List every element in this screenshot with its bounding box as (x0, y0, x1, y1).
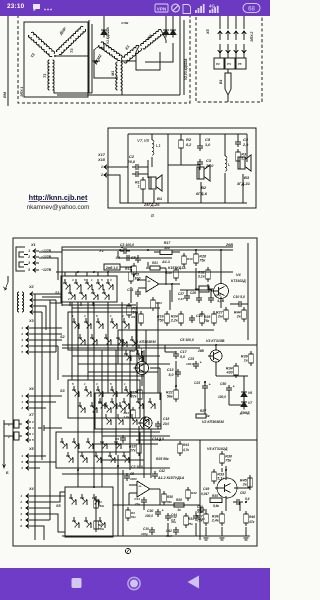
svg-text:3: 3 (84, 314, 86, 318)
svg-text:В3: В3 (244, 175, 250, 180)
svg-text:С32: С32 (171, 515, 177, 519)
svg-text:3: 3 (21, 394, 23, 398)
wires output stage (225, 466, 227, 480)
capacitor C17 5,0 (175, 351, 177, 354)
svg-text:Х3: Х3 (28, 319, 35, 323)
svg-text:2: 2 (20, 332, 23, 336)
svg-text:nkamnev@yahoo.com: nkamnev@yahoo.com (27, 204, 90, 211)
svg-text:26В: 26В (197, 349, 205, 353)
wire top rail 26V (62, 249, 233, 251)
svg-text:+: + (209, 383, 211, 387)
svg-text:75к: 75к (199, 259, 206, 263)
svg-text:100,0: 100,0 (145, 514, 153, 518)
switch unit frame У1 (62, 247, 233, 306)
svg-text:5,0: 5,0 (180, 355, 185, 359)
resistor R21 feedback (150, 266, 160, 270)
svg-text:Д9МД: Д9МД (239, 411, 250, 415)
svg-text:5: 5 (32, 438, 34, 442)
svg-text:ВМ: ВМ (3, 91, 7, 98)
svg-text:Х5: Х5 (28, 447, 35, 451)
wires motor2 (121, 60, 123, 62)
back triangle button (188, 576, 200, 589)
svg-text:С42: С42 (159, 469, 165, 473)
recents square button (72, 578, 82, 588)
home circle button (128, 577, 140, 589)
svg-text:2: 2 (20, 406, 23, 410)
svg-text:С5: С5 (205, 137, 211, 142)
mains plug contacts (16, 247, 25, 271)
arrow Б lead (3, 444, 5, 468)
svg-text:С27: С27 (178, 292, 184, 296)
svg-text:75к: 75к (204, 319, 210, 323)
motor unit M box (24, 22, 88, 97)
loudspeaker B3 3ГД-31 (238, 157, 245, 169)
resistor R9 56к (128, 303, 130, 306)
svg-text:0,1: 0,1 (115, 442, 120, 446)
svg-text:Т2: Т2 (30, 52, 36, 59)
svg-text:С7: С7 (131, 256, 135, 260)
resistor R18 27к (138, 441, 140, 444)
svg-text:КТ3102Д: КТ3102Д (231, 279, 246, 283)
crossover network box (108, 128, 256, 208)
svg-text:R27: R27 (200, 409, 207, 413)
svg-text:1: 1 (21, 400, 23, 404)
capacitor C9 0,1 (122, 435, 124, 438)
svg-text:V1 КП303ЕМ: V1 КП303ЕМ (134, 340, 157, 344)
resistor R10 (183, 253, 185, 256)
svg-text:В2: В2 (201, 185, 207, 190)
svg-text:750к: 750к (98, 504, 105, 508)
svg-text:3: 3 (21, 338, 23, 342)
svg-text:+: + (200, 361, 202, 365)
svg-text:R17: R17 (164, 241, 172, 245)
svg-text:R25 56к: R25 56к (156, 457, 169, 461)
svg-text:5,0: 5,0 (169, 373, 174, 377)
2мВ measurement tag (104, 264, 120, 270)
overflow dots icon (44, 9, 52, 11)
svg-text:5: 5 (84, 278, 86, 282)
svg-text:М2: М2 (96, 53, 103, 60)
svg-text:~127В: ~127В (41, 249, 52, 253)
diode V7 (243, 399, 245, 402)
wire top rail (128, 133, 247, 135)
resistor R46 47к (245, 511, 247, 514)
svg-text:1: 1 (21, 326, 23, 330)
resistor R37 75к (205, 511, 207, 514)
svg-text:750: 750 (158, 319, 165, 323)
resistor R13 (133, 263, 135, 266)
signal bars 1 (195, 4, 205, 13)
svg-text:2: 2 (31, 420, 34, 424)
winding T1 (vertical) (48, 60, 54, 90)
svg-text:С2 10,0: С2 10,0 (131, 465, 143, 469)
svg-text:56к: 56к (167, 395, 174, 399)
wire from diode V3 (145, 50, 173, 62)
svg-text:Х2: Х2 (28, 285, 35, 289)
svg-text:3: 3 (96, 382, 98, 386)
svg-text:47н: 47н (170, 520, 176, 524)
svg-text:Р5: Р5 (238, 62, 242, 66)
resistor R1 750к in S5 (95, 497, 97, 500)
svg-text:1к: 1к (244, 359, 249, 363)
svg-text:С50: С50 (220, 382, 226, 386)
svg-text:1: 1 (64, 278, 66, 282)
wire stubs S1 to rail (64, 272, 66, 276)
svg-text:2к: 2к (242, 483, 248, 487)
svg-text:РЗ: РЗ (216, 62, 220, 66)
svg-text:R42: R42 (191, 491, 197, 495)
svg-text:3: 3 (20, 506, 22, 510)
resistor R41 4,7к (179, 441, 181, 444)
sim card icon (183, 5, 191, 14)
resistor R12 1к (138, 345, 140, 348)
svg-text:51к: 51к (131, 515, 136, 519)
wire loop motor2 left (94, 46, 118, 78)
svg-text:6: 6 (20, 524, 22, 528)
svg-text:С18: С18 (163, 417, 169, 421)
divider wire and labels (62, 344, 257, 346)
svg-text:Х5: Х5 (206, 28, 210, 35)
svg-text:∞: ∞ (148, 279, 151, 284)
horizontal links in switch matrix (62, 304, 136, 306)
svg-text:+: + (121, 246, 123, 250)
svg-text:В: В (151, 213, 154, 218)
svg-text:http://knn.cjb.net: http://knn.cjb.net (29, 193, 88, 202)
resistor R11 1,2к (132, 407, 134, 410)
resistor R3 5,1 (237, 149, 239, 152)
junction dots opamp (137, 279, 139, 281)
main amplifier board border (13, 238, 257, 546)
svg-text:1: 1 (110, 314, 112, 318)
svg-text:С52: С52 (240, 491, 246, 495)
svg-text:2,4к: 2,4к (211, 519, 220, 523)
wires mid section (141, 375, 143, 386)
arrow into motor unit (94, 60, 97, 64)
svg-text:R26: R26 (176, 498, 182, 502)
wire star junctions (54, 55, 56, 57)
capacitor C1 20,0 (132, 173, 136, 175)
capacitor C26 1000 (126, 473, 128, 476)
svg-text:Х7: Х7 (28, 413, 35, 417)
svg-text:2: 2 (19, 500, 22, 504)
resistor R19 (140, 311, 142, 314)
svg-text:4=5В: 4=5В (120, 21, 129, 25)
wire rail y272 (56, 271, 233, 273)
capacitor C13 5,0 (177, 369, 179, 372)
svg-text:V1 КД522А: V1 КД522А (106, 27, 110, 44)
svg-text:5,6: 5,6 (245, 497, 250, 501)
sheet letter Ø below board (125, 548, 130, 553)
winding M1 (vertical) (116, 62, 123, 90)
wire column x168 (167, 134, 169, 203)
svg-text:2: 2 (100, 173, 103, 177)
svg-text:2мВ 1,0: 2мВ 1,0 (105, 266, 118, 270)
svg-text:2: 2 (67, 297, 70, 301)
connector X5 pin arrows (two rows of four) (219, 16, 221, 29)
svg-text:1: 1 (124, 382, 126, 386)
svg-text:2: 2 (20, 344, 23, 348)
resistor R18 (175, 267, 177, 270)
svg-text:R18: R18 (166, 271, 172, 275)
svg-text:А1.2 К157УД1А: А1.2 К157УД1А (157, 476, 185, 480)
svg-text:3: 3 (21, 454, 23, 458)
switch S4 box (95, 393, 161, 429)
auxiliary switch box (118, 330, 146, 364)
resistor R32 3,1к (207, 267, 209, 270)
svg-text:ЭПУ.2: ЭПУ.2 (250, 32, 254, 42)
long vertical wire bus left (34, 294, 36, 540)
switch S5 box (65, 487, 113, 537)
diode V6 (243, 389, 245, 392)
svg-text:750к: 750к (98, 527, 105, 531)
svg-text:1: 1 (101, 165, 103, 169)
svg-text:VPN: VPN (157, 6, 167, 11)
svg-text:L: L (228, 162, 231, 167)
wire divider second line (62, 347, 200, 349)
wire bottom rail (120, 202, 247, 204)
capacitor C32 47н (167, 513, 169, 516)
svg-text:Х1: Х1 (30, 243, 36, 247)
svg-text:S3: S3 (60, 389, 66, 393)
resistor R5 300 (130, 269, 132, 272)
output stage frame (200, 439, 257, 441)
svg-text:R38: R38 (167, 495, 173, 499)
svg-text:С10 5,0: С10 5,0 (233, 295, 245, 299)
ground symbols output stage (204, 537, 209, 539)
svg-text:R35: R35 (212, 494, 218, 498)
svg-text:R14: R14 (156, 301, 162, 305)
capacitor C11 (137, 289, 139, 292)
svg-text:С10: С10 (143, 527, 149, 531)
battery pill 68 (243, 3, 260, 12)
diode V3 КД522А (172, 27, 174, 30)
wire input (112, 166, 128, 168)
resistor R33 5,1к (213, 469, 215, 472)
svg-text:С28: С28 (197, 505, 203, 509)
svg-text:R19: R19 (131, 315, 137, 319)
svg-text:S5: S5 (56, 504, 62, 508)
status bar (0, 0, 270, 16)
VPN badge (155, 4, 168, 12)
loudspeaker B2 6ГД-6 (197, 167, 204, 179)
svg-text:5: 5 (21, 350, 23, 354)
svg-text:1: 1 (84, 382, 86, 386)
svg-text:5: 5 (21, 460, 23, 464)
svg-text:С42: С42 (166, 529, 172, 533)
diode V1 КД522А (103, 27, 105, 30)
svg-text:М1: М1 (111, 71, 115, 76)
chat bubble icon (33, 4, 40, 11)
svg-text:2м: 2м (217, 315, 223, 319)
svg-text:20,0: 20,0 (127, 160, 136, 164)
svg-text:4: 4 (19, 512, 22, 516)
svg-text:100р: 100р (141, 532, 148, 536)
capacitor C43 (195, 513, 197, 516)
svg-text:68: 68 (248, 7, 255, 13)
resistor R27 2м (225, 307, 227, 310)
resistor R38 56к (163, 491, 165, 494)
svg-text:С4: С4 (243, 137, 249, 142)
svg-text:В1: В1 (157, 196, 163, 201)
switch S1 box (61, 276, 117, 302)
wire cluster links (186, 290, 188, 293)
switch S6 box (56, 432, 140, 468)
svg-text:3,1к: 3,1к (198, 275, 206, 279)
resistor R26 1к (174, 503, 184, 507)
wire loop motor2 right (136, 46, 160, 70)
wires analog top (147, 262, 149, 267)
svg-text:РЧ: РЧ (227, 62, 232, 66)
svg-text:+: + (162, 509, 164, 513)
dashed enclosure ЭПУ-1 (tape drive unit, left) (18, 8, 190, 103)
svg-text:6ГД-6: 6ГД-6 (196, 191, 208, 196)
svg-text:Т1: Т1 (43, 74, 47, 78)
svg-text:1,2к: 1,2к (123, 415, 129, 419)
svg-text:4,4В: 4,4В (216, 299, 224, 303)
svg-text:С25: С25 (188, 357, 194, 361)
svg-text:V4: V4 (236, 273, 242, 277)
svg-text:С2: С2 (129, 154, 135, 159)
svg-text:25ГД-26: 25ГД-26 (143, 202, 160, 207)
svg-text:8,2: 8,2 (186, 143, 192, 147)
dashed enclosure ЭПУ-2 (right) (196, 8, 262, 102)
svg-text:R21: R21 (152, 261, 158, 265)
svg-text:22н: 22н (134, 502, 140, 506)
svg-text:S1: S1 (55, 291, 60, 295)
svg-text:1: 1 (32, 432, 34, 436)
svg-text:С49: С49 (203, 487, 209, 491)
wire second rail (120, 257, 150, 259)
svg-text:L1: L1 (156, 143, 161, 148)
svg-text:С31: С31 (134, 497, 140, 501)
svg-text:10,0: 10,0 (215, 293, 221, 297)
svg-text:75к: 75к (188, 522, 193, 526)
svg-text:100,0: 100,0 (186, 362, 194, 366)
resistor R35 5,6к (210, 498, 222, 503)
svg-text:0,47: 0,47 (178, 297, 184, 301)
svg-text:20,0: 20,0 (162, 422, 169, 426)
svg-text:К157УД1А: К157УД1А (168, 266, 186, 270)
lower passive row (R16 R24 C20 R29 R41) (166, 311, 168, 314)
svg-text:V3 КТ315В: V3 КТ315В (206, 339, 225, 343)
svg-text:27к: 27к (130, 395, 138, 399)
svg-text:2: 2 (7, 435, 10, 439)
svg-text:1к: 1к (206, 414, 210, 418)
svg-text:С3: С3 (206, 158, 212, 163)
svg-text:С20: С20 (196, 314, 203, 318)
resistor R14 (152, 297, 154, 300)
svg-text:V6: V6 (248, 391, 252, 395)
do-not-disturb icon (172, 4, 180, 12)
android navigation bar (0, 568, 270, 600)
transistor V5 КТ3102Д circle (217, 478, 237, 498)
svg-text:R2: R2 (186, 137, 192, 142)
svg-text:V2,V3 КД522А: V2,V3 КД522А (184, 58, 188, 80)
winding T3 / ДОР (diagonal) (56, 26, 86, 56)
loudspeaker B1 25ГД-26 (149, 177, 156, 189)
svg-text:Х18: Х18 (97, 157, 106, 162)
svg-text:1,0: 1,0 (205, 143, 211, 147)
svg-text:R12: R12 (129, 349, 135, 353)
svg-text:300: 300 (164, 246, 170, 250)
svg-text:5,6к: 5,6к (213, 504, 219, 508)
switch S2 box (68, 312, 136, 350)
wire column mid (180, 151, 182, 165)
inductor L (225, 156, 227, 171)
svg-text:Б: Б (6, 471, 9, 475)
resistor R36 2,4к (221, 511, 223, 514)
wire to right section (92, 60, 100, 62)
svg-text:С23: С23 (194, 381, 200, 385)
svg-text:1: 1 (8, 423, 10, 427)
svg-text:С8 100,0: С8 100,0 (180, 338, 194, 342)
svg-text:5: 5 (72, 382, 74, 386)
resistor R39 1к (250, 351, 252, 354)
winding T2 (diagonal) (28, 32, 55, 58)
svg-text:5: 5 (110, 382, 112, 386)
svg-text:~127В: ~127В (41, 255, 52, 259)
svg-text:М3: М3 (147, 33, 154, 40)
resistor R44 2к (243, 307, 245, 310)
svg-text:С11: С11 (127, 288, 133, 292)
svg-text:1: 1 (28, 249, 30, 253)
wire center to M3 (122, 60, 136, 62)
svg-text:В1: В1 (219, 79, 223, 84)
wire opamp out (171, 284, 173, 302)
winding E1 (diagonal) (121, 45, 142, 64)
svg-text:С17: С17 (180, 350, 188, 354)
svg-text:+: + (233, 385, 235, 389)
svg-text:V2 КП303БМ: V2 КП303БМ (202, 420, 225, 424)
resistor R45 2к (249, 475, 251, 478)
svg-text:5: 5 (96, 314, 98, 318)
svg-text:~127В: ~127В (41, 268, 52, 272)
svg-text:1: 1 (20, 494, 22, 498)
outer border BM (7, 16, 9, 106)
resistor R28 75к (195, 251, 197, 254)
resistor R30 75к (221, 451, 223, 454)
relay boxes row (214, 58, 224, 69)
clock 23:10 (7, 3, 24, 10)
svg-text:1: 1 (138, 185, 140, 189)
svg-text:R46: R46 (249, 515, 255, 519)
svg-text:3: 3 (28, 261, 30, 265)
svg-text:S2: S2 (60, 335, 66, 339)
svg-text:4,7к: 4,7к (182, 448, 189, 452)
svg-text:56к: 56к (167, 500, 172, 504)
svg-text:А1.1: А1.1 (161, 260, 170, 264)
svg-text:ЭПУ.1: ЭПУ.1 (20, 87, 24, 97)
resistor R34 430 (235, 363, 237, 366)
switch S3 box (68, 380, 140, 418)
wires X1 to switch (39, 251, 62, 253)
svg-text:1к: 1к (177, 508, 181, 512)
svg-text:1: 1 (91, 278, 93, 282)
svg-text:V5 КТ3102Д: V5 КТ3102Д (207, 447, 228, 451)
transistor V2 circle (140, 417, 152, 429)
svg-text:2к: 2к (236, 315, 242, 319)
arrow ground lead (5, 282, 8, 290)
resistor R31 75к (185, 513, 187, 516)
resistor R44 51к (127, 507, 129, 510)
svg-text:2,0: 2,0 (242, 143, 249, 147)
diode V2 КД522А (165, 27, 167, 30)
inductor L1 (152, 140, 154, 155)
resistor R2 750к in S5 (95, 518, 97, 521)
loudspeaker B1 wire (153, 190, 155, 203)
svg-text:С13: С13 (167, 368, 174, 372)
capacitor C near X7 (38, 427, 42, 429)
